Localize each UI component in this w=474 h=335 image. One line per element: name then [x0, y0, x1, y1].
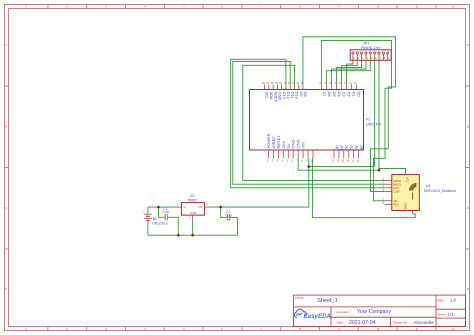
- svg-text:D1: D1: [352, 92, 357, 98]
- svg-text:D11: D11: [290, 92, 295, 100]
- wire GND pin to U1 GND: [313, 158, 416, 217]
- wire regulator GND to rail: [192, 220, 194, 235]
- wire JP1 pin2 to D3: [342, 60, 358, 84]
- wire JP1 pin5 to D6: [327, 60, 371, 84]
- svg-text:D7: D7: [322, 92, 327, 98]
- svg-text:EasyEDA: EasyEDA: [304, 313, 332, 320]
- wire battery top lead: [147, 207, 149, 210]
- component U1 body: [392, 175, 420, 211]
- svg-text:JP1: JP1: [363, 42, 369, 46]
- svg-text:D12: D12: [286, 92, 291, 100]
- wire JP1 pin3 to D4: [337, 60, 362, 84]
- frame row letters: [5, 43, 469, 291]
- node reg gnd: [191, 234, 194, 237]
- svg-text:7805T: 7805T: [188, 199, 198, 203]
- svg-text:Drawn By:: Drawn By:: [394, 321, 408, 325]
- svg-text:Company:: Company:: [336, 310, 350, 314]
- wire D7 big loop to U1 CE: [322, 40, 392, 200]
- node VCC branch: [378, 169, 381, 172]
- svg-text:Alexander: Alexander: [413, 320, 434, 325]
- svg-text:VIN: VIN: [301, 142, 306, 149]
- svg-text:IRQ: IRQ: [393, 203, 399, 207]
- svg-text:2021-07-04: 2021-07-04: [349, 320, 376, 326]
- U1 pin names: [393, 177, 409, 210]
- wire C2 tap from input: [159, 207, 162, 217]
- wire JP1 pin1 to D2: [347, 60, 353, 84]
- capacitor C2 0.1u: [165, 214, 167, 221]
- U1 bottom GND pin stub: [412, 211, 414, 214]
- component U2 body: [181, 203, 204, 215]
- svg-text:D4: D4: [337, 92, 342, 98]
- wire regulator output: [210, 206, 308, 208]
- node C2 tap: [157, 206, 160, 209]
- U2 pin names: [183, 205, 203, 215]
- svg-text:GND: GND: [404, 202, 408, 210]
- svg-text:C: C: [5, 206, 7, 210]
- wire JP1 pin4 to D5: [332, 60, 366, 84]
- frame column ticks bottom: [48, 327, 436, 331]
- P1 reference label: [366, 118, 381, 127]
- frame column ticks top: [48, 5, 436, 9]
- wire VCC jog into U1: [379, 168, 406, 170]
- P1 bottom-left POWER pins: [269, 150, 314, 158]
- P1 top-left pin names (vertical): [265, 92, 308, 103]
- svg-text:Date:: Date:: [337, 321, 344, 325]
- node C2 gnd: [177, 234, 180, 237]
- wire D13 to U1 SCK (outer left loop): [231, 59, 385, 188]
- svg-text:1.0: 1.0: [450, 298, 457, 303]
- P1 bottom-left pin names (vertical, reading up): [266, 133, 306, 148]
- U1 top VCC pin stub: [405, 170, 407, 175]
- svg-text:D13: D13: [282, 92, 287, 100]
- svg-text:A3: A3: [349, 145, 354, 151]
- svg-text:D8: D8: [303, 92, 308, 98]
- svg-text:B1: B1: [153, 217, 157, 221]
- svg-text:A1: A1: [339, 145, 344, 151]
- svg-text:A2: A2: [344, 145, 349, 151]
- svg-text:-: -: [143, 225, 144, 229]
- svg-text:B: B: [467, 125, 469, 129]
- wire C1 to ground rail: [234, 218, 238, 236]
- svg-text:Sheet:: Sheet:: [437, 313, 446, 317]
- wire VIN pin down to regulator output: [308, 158, 310, 207]
- U2 pin stubs: [176, 207, 211, 220]
- node C1 tap: [219, 206, 222, 209]
- svg-text:A0: A0: [334, 145, 339, 151]
- wire ground rail: [148, 234, 238, 236]
- svg-text:Sheet_1: Sheet_1: [317, 298, 338, 304]
- wire JP1 pin6 down to VIN net: [374, 60, 376, 166]
- wire C1 tap: [221, 207, 224, 218]
- U2 labels: [188, 194, 198, 203]
- P1 top-right pins D7..D0: [322, 85, 357, 90]
- svg-text:SCL: SCL: [265, 92, 270, 101]
- svg-text:B: B: [5, 125, 7, 129]
- U1 antenna icon: [410, 184, 417, 200]
- svg-text:0.1u: 0.1u: [226, 214, 232, 218]
- svg-text:GND: GND: [190, 211, 196, 215]
- svg-text:VCC: VCC: [406, 177, 410, 184]
- svg-text:A4: A4: [354, 145, 359, 151]
- svg-text:A5: A5: [359, 145, 364, 151]
- svg-text:Your Company: Your Company: [357, 309, 392, 315]
- svg-text:D3: D3: [342, 92, 347, 98]
- wire 5V GND pin to U1 VCC: [298, 158, 379, 170]
- svg-text:UNO_R3: UNO_R3: [366, 123, 381, 127]
- svg-text:TITLE:: TITLE:: [295, 296, 304, 300]
- svg-text:1/1: 1/1: [448, 312, 455, 317]
- svg-text:CR1220-2: CR1220-2: [152, 222, 168, 226]
- node VIN branch: [308, 165, 311, 168]
- component P1 body: [250, 90, 364, 151]
- svg-text:A: A: [467, 43, 469, 47]
- svg-text:D2: D2: [347, 92, 352, 98]
- svg-text:A: A: [5, 43, 7, 47]
- component JP1 body: [350, 50, 391, 61]
- wire battery bottom to ground rail: [147, 225, 149, 235]
- svg-text:0.1u: 0.1u: [163, 210, 169, 214]
- U1 pin numbers: [383, 178, 385, 205]
- wire C2 to ground rail: [171, 217, 178, 235]
- svg-text:SDA: SDA: [269, 92, 274, 101]
- svg-text:PINHD-1X9: PINHD-1X9: [361, 46, 380, 50]
- wire battery to regulator VI: [148, 206, 176, 208]
- svg-text:D5: D5: [332, 92, 337, 98]
- svg-text:CSN: CSN: [393, 190, 399, 194]
- svg-text:VI: VI: [183, 205, 186, 209]
- svg-text:C: C: [467, 206, 469, 210]
- capacitor C1 0.1u: [228, 214, 230, 221]
- P1 top-left pins SCL SDA AREF GND D13 D12 D11 D10 D9 D8: [265, 85, 303, 90]
- svg-text:D: D: [5, 287, 7, 291]
- battery B1 plates: [144, 214, 152, 220]
- wire D8 big loop to U1 CSN: [303, 37, 396, 192]
- svg-text:P1: P1: [366, 118, 370, 122]
- P1 top-left pin numbers: [262, 82, 304, 85]
- wire D12 to U1 MISO: [233, 61, 385, 184]
- frame row ticks left: [5, 86, 9, 249]
- svg-text:NRF24L01_Breakout: NRF24L01_Breakout: [424, 189, 456, 193]
- P1 bottom-right pins A0..A5: [334, 150, 359, 158]
- EasyEDA logo: [294, 309, 331, 320]
- JP1 pins 1-9: [352, 52, 389, 60]
- U1 reference label: [424, 184, 456, 193]
- wire VIN net horizontal: [309, 166, 375, 168]
- svg-text:U2: U2: [190, 194, 194, 198]
- U1 left pin stubs: [385, 181, 392, 205]
- svg-text:5V: 5V: [372, 162, 376, 166]
- svg-text:AREF: AREF: [273, 92, 278, 103]
- frame row ticks right: [466, 86, 470, 249]
- junction dots: [157, 165, 380, 236]
- svg-text:D0: D0: [357, 92, 362, 98]
- wire JP1 pin7 down to VCC node: [378, 60, 380, 170]
- JP1 labels: [361, 42, 380, 51]
- svg-text:D6: D6: [327, 92, 332, 98]
- svg-text:D: D: [467, 287, 469, 291]
- svg-text:REV:: REV:: [438, 298, 445, 302]
- wire D11 to U1 MOSI: [243, 65, 385, 180]
- svg-text:D10: D10: [295, 92, 300, 100]
- svg-text:U1: U1: [426, 184, 430, 188]
